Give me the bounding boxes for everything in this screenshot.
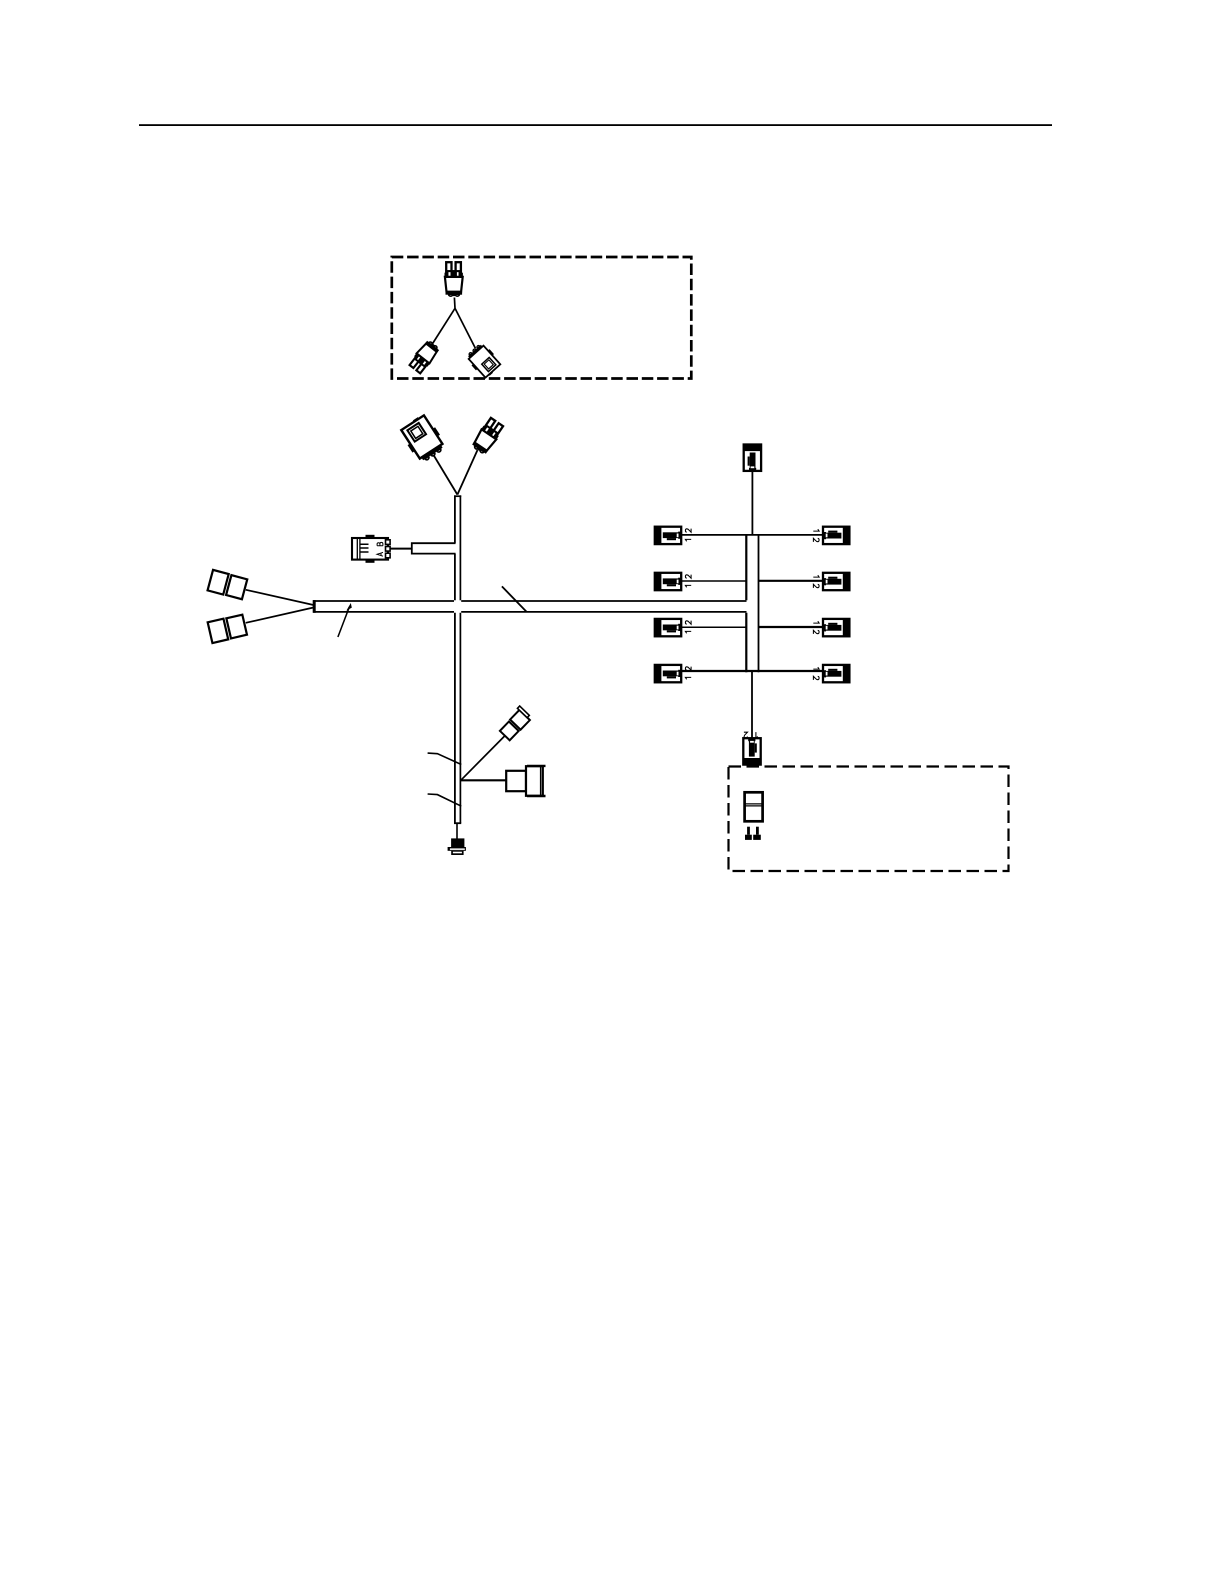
pin label R4 — [813, 667, 819, 680]
wire row 3 right — [759, 626, 824, 628]
wire row 2 right — [759, 580, 824, 582]
wire trunk top cap — [454, 495, 461, 497]
wire lead to C5 — [246, 608, 314, 623]
wire diagonal to C6 — [461, 736, 505, 781]
wire row 4 — [681, 670, 823, 672]
wire bottom lead — [456, 824, 458, 839]
wire Y left leg — [434, 455, 458, 495]
connector R2 — [823, 573, 849, 590]
connector T3 ladder bottom — [743, 738, 760, 764]
wire adapter right branch — [455, 308, 476, 348]
connector P3 adapter right — [465, 341, 503, 380]
connector R1 — [823, 527, 849, 544]
connector C4 — [208, 570, 248, 600]
wire main horizontal trunk top edge — [313, 601, 746, 612]
connector R4 — [823, 665, 849, 682]
wire row 3 left — [681, 626, 746, 628]
connector P2 adapter left — [408, 339, 441, 374]
pin label R3 — [813, 621, 819, 634]
wire lead to C7 — [461, 779, 506, 781]
wire ladder top lead — [751, 471, 753, 535]
connector L3 — [655, 619, 681, 636]
pin label R2 — [813, 575, 819, 588]
pin label T3 1 — [756, 732, 758, 738]
pin label L1 — [685, 529, 691, 542]
wire main vertical trunk right edge — [459, 495, 461, 823]
connector L1 — [655, 527, 681, 544]
pin plug right — [753, 827, 761, 840]
connector C5 — [208, 614, 247, 643]
wire ladder trunk right edge — [758, 534, 760, 672]
wire main vertical trunk left edge — [454, 495, 456, 823]
pin label R1 — [813, 529, 819, 542]
wire trunk bottom cap — [454, 822, 461, 824]
connector L4 — [655, 665, 681, 682]
pin label L3 — [685, 621, 691, 634]
leader line at trunk — [502, 586, 527, 611]
connector T2 ladder top — [744, 445, 761, 471]
break mark upper — [428, 753, 462, 764]
wire lead to C4 — [246, 590, 314, 605]
pin label T3 2 — [744, 732, 748, 738]
dashed detail box (implement end) — [729, 767, 1009, 872]
wire row 1 — [681, 534, 823, 536]
wire ladder bottom lead — [751, 672, 753, 740]
leader arrow at harness — [338, 603, 352, 637]
connector R3 — [823, 619, 849, 636]
wire row 2 left — [681, 580, 746, 582]
connector L2 — [655, 573, 681, 590]
wire adapter left branch — [432, 308, 455, 344]
connector C6 — [498, 706, 532, 741]
wire branch stub to C3 — [412, 543, 456, 553]
connector C2 right of Y — [470, 417, 504, 455]
connector C3 (A/B) — [352, 535, 390, 563]
pin label L2 — [685, 575, 691, 588]
header rule — [139, 124, 1052, 126]
wire horizontal trunk left cap — [313, 600, 316, 613]
wire C3 lead — [390, 548, 412, 550]
connector P1 top of adapter — [445, 262, 463, 296]
pin label L4 — [685, 667, 691, 680]
wire adapter stem — [453, 298, 456, 309]
connector C1 left of Y — [398, 412, 448, 464]
wire ladder trunk left edge — [745, 534, 747, 672]
wire Y right leg — [457, 450, 477, 495]
pin plug left — [745, 827, 752, 840]
relay/module symbol — [744, 792, 763, 821]
dashed detail box (tractor end adapter) — [392, 257, 692, 379]
connector C7 — [506, 766, 545, 796]
terminator T4 — [448, 838, 466, 855]
break mark lower — [428, 794, 462, 806]
